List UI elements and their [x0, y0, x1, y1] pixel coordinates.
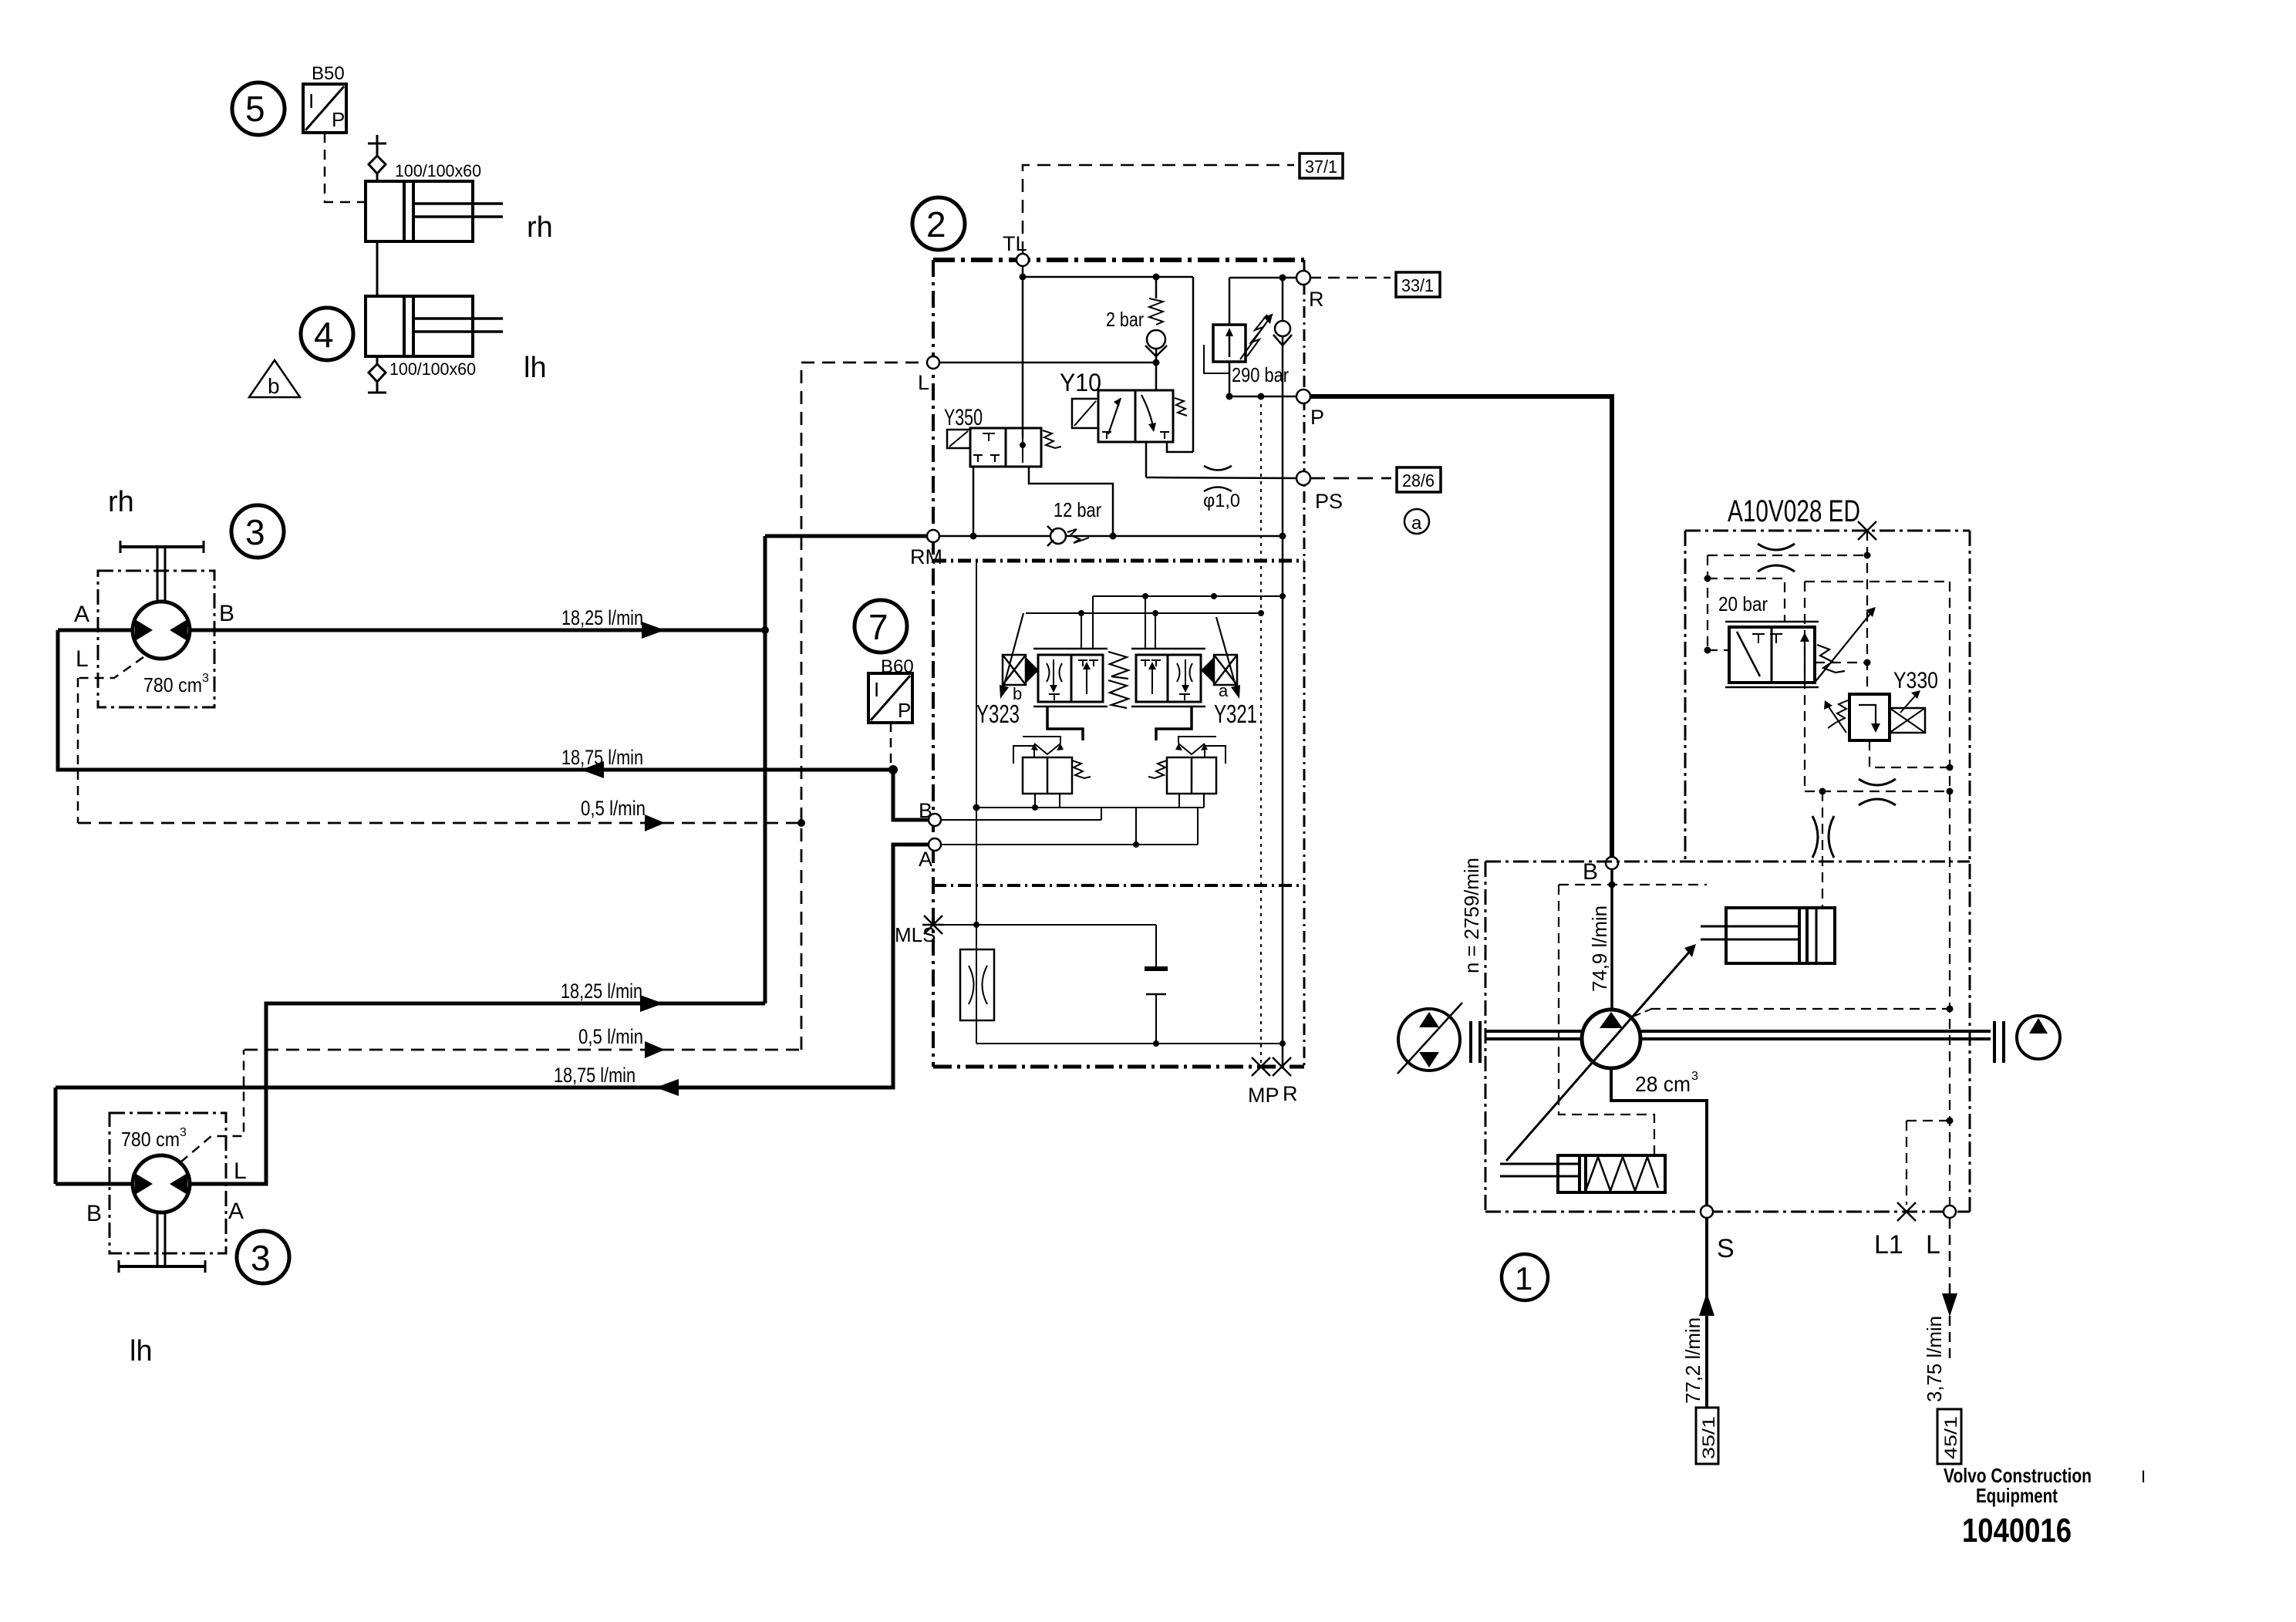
svg-text:2 bar: 2 bar	[1106, 308, 1144, 331]
svg-text:Y10: Y10	[1060, 369, 1101, 396]
svg-text:37/1: 37/1	[1305, 157, 1337, 177]
svg-text:B50: B50	[312, 63, 345, 84]
svg-text:L: L	[918, 371, 929, 394]
svg-text:74,9 l/min: 74,9 l/min	[1588, 905, 1611, 992]
svg-text:Y323: Y323	[976, 700, 1020, 728]
svg-text:20 bar: 20 bar	[1718, 592, 1768, 615]
svg-text:rh: rh	[108, 486, 134, 518]
svg-text:B: B	[1583, 859, 1598, 885]
svg-text:P: P	[332, 108, 345, 131]
svg-text:L: L	[1926, 1230, 1940, 1259]
svg-text:B: B	[219, 601, 234, 626]
svg-text:Y330: Y330	[1893, 668, 1938, 693]
svg-text:4: 4	[314, 315, 334, 355]
svg-text:A: A	[74, 602, 89, 627]
svg-text:35/1: 35/1	[1699, 1416, 1718, 1459]
svg-text:3: 3	[245, 512, 265, 552]
svg-text:3,75 l/min: 3,75 l/min	[1923, 1316, 1946, 1402]
svg-text:lh: lh	[130, 1335, 153, 1367]
svg-text:I: I	[308, 89, 314, 113]
svg-text:R: R	[1309, 288, 1324, 311]
svg-text:28/6: 28/6	[1402, 470, 1435, 491]
svg-text:28 cm: 28 cm	[1635, 1072, 1691, 1096]
svg-text:P: P	[898, 699, 911, 722]
svg-text:B: B	[919, 799, 932, 822]
svg-text:rh: rh	[527, 211, 553, 244]
svg-text:0,5 l/min: 0,5 l/min	[581, 797, 646, 820]
svg-text:L: L	[76, 646, 89, 672]
svg-text:3: 3	[251, 1238, 271, 1278]
svg-text:290 bar: 290 bar	[1232, 363, 1289, 386]
svg-text:TL: TL	[1003, 232, 1027, 255]
svg-text:3: 3	[1691, 1070, 1698, 1083]
svg-text:I: I	[874, 678, 879, 701]
svg-text:18,75 l/min: 18,75 l/min	[554, 1064, 636, 1087]
svg-text:Y350: Y350	[944, 405, 983, 430]
svg-text:RM: RM	[910, 545, 942, 568]
svg-text:7: 7	[868, 607, 888, 647]
svg-text:0,5 l/min: 0,5 l/min	[578, 1025, 643, 1048]
svg-text:b: b	[268, 374, 280, 398]
svg-text:1040016: 1040016	[1962, 1512, 2072, 1549]
svg-text:Equipment: Equipment	[1976, 1484, 2058, 1507]
svg-text:MP: MP	[1248, 1084, 1279, 1107]
svg-text:n = 2759/min: n = 2759/min	[1460, 858, 1483, 973]
svg-text:77,2 l/min: 77,2 l/min	[1681, 1317, 1704, 1404]
svg-text:MLS: MLS	[895, 923, 936, 946]
svg-text:Y321: Y321	[1214, 700, 1257, 728]
svg-text:a: a	[1411, 513, 1422, 534]
svg-text:18,75 l/min: 18,75 l/min	[561, 746, 643, 769]
svg-text:A: A	[228, 1199, 244, 1224]
svg-text:PS: PS	[1315, 490, 1343, 513]
svg-text:L1: L1	[1874, 1230, 1903, 1259]
svg-text:B: B	[86, 1201, 102, 1226]
svg-text:L: L	[234, 1158, 247, 1184]
svg-text:33/1: 33/1	[1401, 275, 1434, 295]
svg-text:A: A	[919, 848, 932, 871]
svg-text:18,25 l/min: 18,25 l/min	[561, 980, 642, 1003]
svg-text:780 cm: 780 cm	[143, 673, 202, 696]
svg-text:I: I	[2141, 1467, 2146, 1486]
svg-text:S: S	[1717, 1234, 1735, 1263]
svg-text:780 cm: 780 cm	[121, 1128, 180, 1151]
svg-text:3: 3	[180, 1126, 187, 1139]
svg-text:100/100x60: 100/100x60	[389, 359, 476, 379]
svg-text:P: P	[1310, 406, 1324, 429]
svg-text:R: R	[1283, 1082, 1298, 1105]
svg-text:45/1: 45/1	[1941, 1416, 1961, 1459]
svg-text:12 bar: 12 bar	[1054, 498, 1101, 521]
svg-text:2: 2	[926, 204, 946, 244]
svg-text:a: a	[1219, 681, 1229, 700]
svg-text:A10V028 ED: A10V028 ED	[1728, 494, 1860, 528]
svg-text:100/100x60: 100/100x60	[395, 161, 481, 180]
svg-text:φ1,0: φ1,0	[1203, 491, 1240, 511]
svg-text:lh: lh	[524, 352, 547, 384]
svg-text:5: 5	[245, 89, 265, 129]
svg-text:3: 3	[202, 672, 209, 685]
svg-text:18,25 l/min: 18,25 l/min	[561, 606, 643, 629]
svg-text:1: 1	[1515, 1260, 1532, 1297]
